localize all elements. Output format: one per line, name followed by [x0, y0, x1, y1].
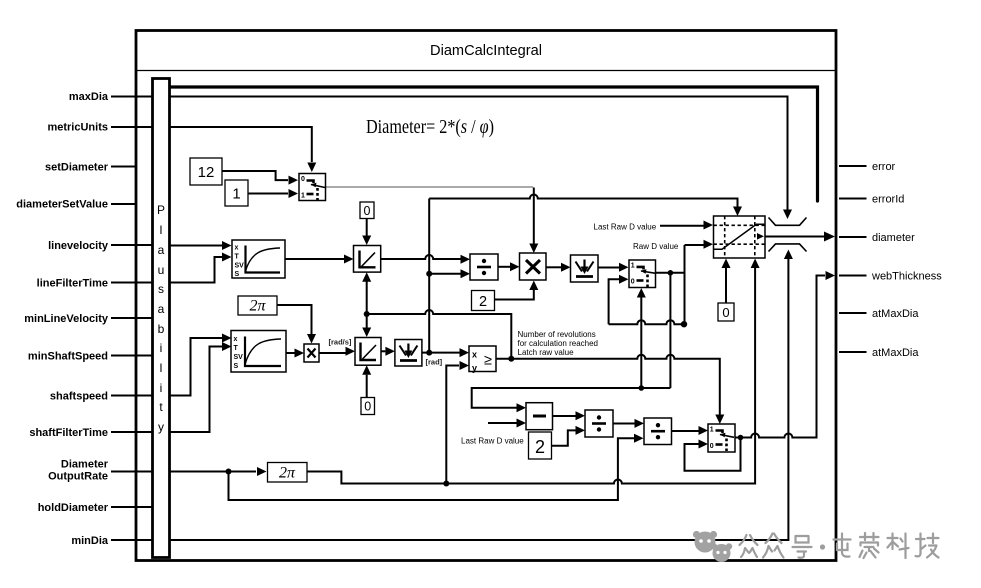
2pi gain 1 [238, 296, 277, 315]
wire divide2 output to divide3 [613, 423, 635, 425]
wire DiameterOutputRate to 2pi gain [170, 471, 257, 473]
wire linevelocity to filter1 pin x [170, 245, 223, 247]
constant 2 b [529, 432, 552, 459]
svg-text:i: i [160, 381, 163, 395]
filter block 2 (x T SV S) [231, 331, 286, 373]
svg-text:0: 0 [631, 279, 635, 286]
svg-text:SV: SV [234, 354, 244, 361]
wire ratelimiter limits vertical between RL1 and RL2 [366, 282, 368, 328]
svg-text:[rad/s]: [rad/s] [329, 338, 352, 347]
output port error [839, 161, 896, 173]
junction integrator output [426, 350, 432, 356]
wire 2pi1 output to small product top [277, 305, 312, 334]
output port diameter [839, 232, 915, 244]
wire raw value vertical to subtract line [472, 273, 671, 408]
svg-text:T: T [234, 345, 239, 352]
wire last raw value to subtract lower input [488, 422, 517, 424]
svg-text:1: 1 [301, 193, 305, 200]
svg-text:1: 1 [232, 186, 240, 203]
dynamic saturation block [714, 216, 766, 258]
input label shaftFilterTime [29, 427, 152, 439]
svg-text:webThickness: webThickness [871, 271, 942, 283]
svg-text:Last Raw D value: Last Raw D value [461, 437, 524, 446]
input label holdDiameter [38, 502, 153, 514]
wire ratelimiter1 output to divide1 [381, 255, 461, 259]
svg-text:maxDia: maxDia [69, 91, 109, 103]
wire switch3 feedback to input 0 [685, 438, 741, 471]
input label metricUnits [47, 122, 152, 134]
svg-text:error: error [872, 161, 896, 173]
svg-text:a: a [158, 243, 165, 257]
svg-text:errorId: errorId [872, 194, 904, 206]
wire const12 to switch1 input 0 [222, 171, 288, 180]
wire angle vertical x429 [428, 199, 430, 353]
svg-text:0: 0 [301, 176, 305, 183]
svg-text:s: s [158, 282, 164, 296]
svg-text:2π: 2π [249, 298, 266, 315]
constant 12 [190, 158, 222, 185]
svg-text:shaftFilterTime: shaftFilterTime [29, 427, 108, 439]
wire ratelimiter2 output to wrap block2 [381, 350, 385, 352]
svg-text:setDiameter: setDiameter [45, 162, 109, 174]
small product X [304, 344, 319, 362]
outer subsystem frame [136, 31, 836, 561]
wire branch up to greater-equal y input [446, 366, 459, 484]
svg-text:holdDiameter: holdDiameter [38, 502, 109, 514]
svg-text:minDia: minDia [71, 535, 109, 547]
input label lineFilterTime [37, 278, 153, 290]
output port errorId [839, 194, 904, 206]
wire switch2 output right and up to saturation input, down to memory [656, 245, 704, 324]
svg-text:2: 2 [479, 294, 487, 310]
wire maxDia to upper limit of saturation pinch [111, 97, 788, 211]
svg-text:linevelocity: linevelocity [48, 240, 109, 252]
annotation number of revolutions [518, 330, 599, 357]
svg-text:i: i [160, 341, 163, 355]
svg-text:Raw D value: Raw D value [633, 242, 679, 251]
wire shaftFilterTime to filter2 pin T [170, 347, 223, 433]
product X [520, 253, 547, 280]
divide 1 [470, 254, 498, 280]
wire wrap block output to switch2 input 1 [598, 267, 619, 269]
input label minDia [71, 535, 152, 547]
junction OutputRate branch [226, 469, 232, 475]
title separator line [137, 70, 835, 72]
wire divide3 output to switch3 input 1 [672, 430, 699, 432]
svg-text:1: 1 [631, 263, 635, 270]
wire OutputRate branch down to divide3 lower input [229, 438, 635, 500]
svg-text:P: P [157, 203, 165, 217]
junction latch line [508, 356, 514, 362]
svg-text:x: x [472, 350, 477, 360]
wire const2b to divide2 lower input [552, 430, 576, 445]
wire diameter output from saturation through pinch to port [765, 236, 825, 238]
wire top line to dynamic saturation top input [429, 195, 737, 207]
rate limiter 1 [354, 246, 381, 273]
junction switch3 feedback [738, 435, 744, 441]
constant 0 c [718, 303, 734, 321]
wire filter1 output to ratelimiter1 [285, 258, 344, 260]
constant 2 a [472, 291, 495, 311]
svg-text:Diameter= 2*(s / φ): Diameter= 2*(s / φ) [366, 117, 494, 138]
switch2 raw D value [629, 260, 656, 288]
svg-text:diameterSetValue: diameterSetValue [16, 199, 108, 211]
wire minDia to lower limit of saturation pinch [111, 259, 788, 540]
output port atMaxDia [839, 308, 919, 320]
wire switch2 control from below [640, 297, 642, 388]
input label diameterSetValue [16, 199, 137, 211]
svg-text:minLineVelocity: minLineVelocity [24, 313, 109, 325]
wire compare output latch line to switch3 control [496, 355, 720, 415]
input label minLineVelocity [24, 313, 152, 325]
wire switch1 output to product top (gray thin) [326, 186, 533, 188]
Plausability subsystem bar [153, 79, 170, 558]
input label shaftspeed [50, 391, 153, 403]
wire shaftspeed to filter2 pin x [170, 338, 223, 396]
constant 0 a [360, 202, 374, 219]
wire filter2 output to small product [286, 352, 295, 354]
wire const0c to saturation bottom [725, 268, 727, 303]
svg-text:T: T [235, 254, 240, 261]
input label linevelocity [48, 240, 152, 252]
input label setDiameter [45, 162, 137, 174]
wire const2a to product bottom [495, 290, 534, 300]
wire last raw D value to saturation upper left input [660, 225, 704, 227]
wire memory feedback to switch2 input 0 [609, 279, 685, 324]
svg-text:S: S [234, 363, 239, 370]
svg-text:b: b [158, 322, 165, 336]
junction divide1 lower input [426, 271, 432, 277]
svg-text:OutputRate: OutputRate [48, 471, 108, 483]
svg-text:SV: SV [235, 263, 245, 270]
wire lineFilterTime to filter1 pin T [170, 257, 223, 283]
wire thick error bus from Plausability top to right, ends with cap [170, 87, 818, 201]
svg-text:≥: ≥ [484, 353, 492, 369]
svg-text:l: l [160, 223, 163, 237]
svg-text:0: 0 [364, 204, 371, 218]
wire divide1 output to product [498, 266, 510, 268]
divide 2 [585, 410, 613, 437]
svg-text:diameter: diameter [872, 232, 915, 244]
constant 0 b [361, 398, 375, 415]
wrap to zero block 2 [395, 340, 422, 367]
svg-text:2π: 2π [279, 465, 296, 482]
constant 1 [225, 180, 248, 206]
svg-text:S: S [235, 271, 240, 278]
wire small product to ratelimiter2 [319, 352, 346, 354]
svg-text:a: a [158, 302, 165, 316]
svg-text:0: 0 [710, 443, 714, 450]
svg-text:DiamCalcIntegral: DiamCalcIntegral [430, 43, 542, 59]
svg-text:u: u [158, 263, 165, 277]
watermark text gongzhonghao tunmeng keji [740, 533, 939, 558]
saturation pinch upper bracket [769, 218, 807, 226]
input label Diameter OutputRate [48, 459, 152, 483]
wire const0a down to ratelimiter1 top [366, 218, 368, 235]
svg-text:x: x [234, 336, 238, 343]
svg-text:lineFilterTime: lineFilterTime [37, 278, 108, 290]
wire metricUnits to switch1 control [170, 127, 312, 162]
svg-text:Latch raw value: Latch raw value [518, 348, 575, 357]
svg-text:Number of revolutions: Number of revolutions [518, 330, 596, 339]
filter block 1 (x T SV S) [232, 240, 285, 278]
svg-text:Last Raw D value: Last Raw D value [594, 223, 657, 232]
output port webThickness [839, 271, 942, 283]
wire limit line to latch junction [367, 310, 512, 359]
switch1 metricUnits [299, 174, 326, 201]
saturation pinch lower bracket [769, 244, 807, 252]
switch3 hold [708, 424, 735, 452]
wire const0b up to ratelimiter2 bottom [366, 375, 368, 398]
svg-text:x: x [235, 245, 239, 252]
svg-text:for calculation reached: for calculation reached [518, 339, 599, 348]
svg-text:shaftspeed: shaftspeed [50, 391, 108, 403]
wire wrap block2 output to compare x input [422, 352, 460, 354]
svg-text:0: 0 [722, 305, 729, 320]
svg-text:Diameter: Diameter [61, 459, 109, 471]
svg-text:12: 12 [198, 164, 215, 181]
wire switch3 output to webThickness port [735, 276, 825, 438]
svg-text:2: 2 [535, 437, 545, 457]
svg-text:y: y [158, 420, 164, 434]
watermark panda icons [693, 531, 732, 562]
svg-text:l: l [160, 361, 163, 375]
input label minShaftSpeed [28, 351, 153, 363]
svg-text:y: y [472, 363, 477, 373]
svg-text:metricUnits: metricUnits [47, 122, 108, 134]
junction 2pi2 line branch [443, 481, 449, 487]
svg-text:1: 1 [710, 427, 714, 434]
subtract block [526, 403, 553, 430]
divide 3 [644, 418, 672, 445]
input label maxDia [69, 91, 153, 103]
wire 2pi2 output to saturation lower input and latch compare y [307, 262, 755, 484]
wire product output to wrap block [546, 266, 561, 268]
junction limit line [364, 311, 370, 317]
svg-text:atMaxDia: atMaxDia [872, 347, 919, 359]
svg-text:[rad]: [rad] [426, 358, 443, 367]
svg-text:minShaftSpeed: minShaftSpeed [28, 351, 108, 363]
wire const1 to switch1 input 1 [248, 193, 288, 195]
svg-text:atMaxDia: atMaxDia [872, 308, 919, 320]
compare greater equal block [469, 346, 496, 373]
2pi gain 2 [268, 463, 308, 483]
output port atMaxDia second [839, 347, 919, 359]
rate limiter 2 [355, 338, 381, 366]
wrap to zero block 1 [571, 255, 599, 282]
wire subtract output to divide2 [553, 415, 576, 417]
svg-text:0: 0 [364, 400, 371, 414]
